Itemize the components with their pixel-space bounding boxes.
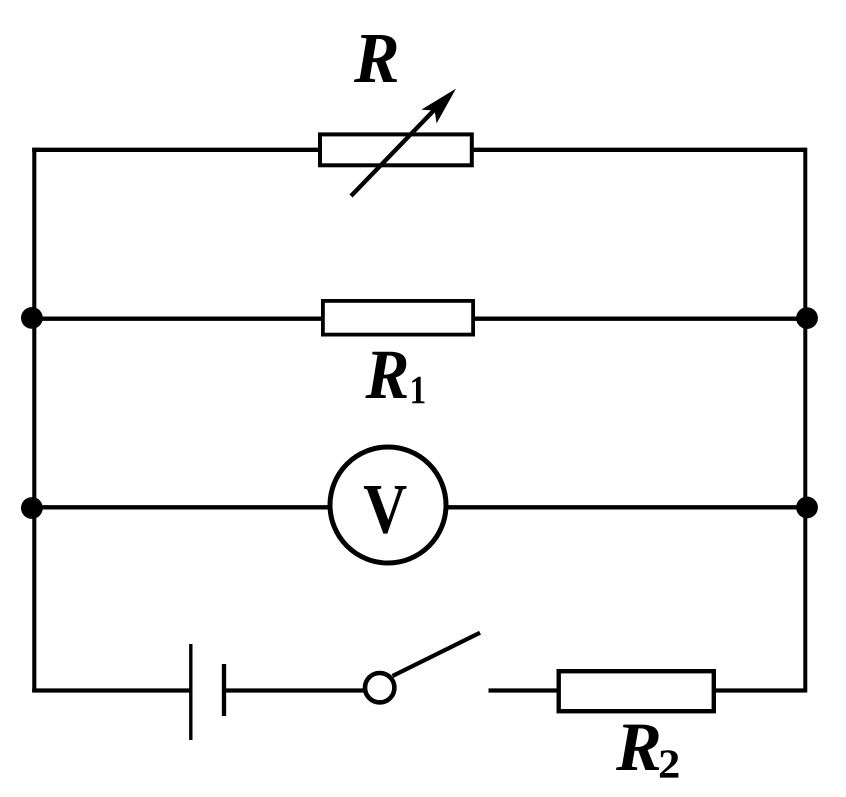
resistor R2 xyxy=(559,671,714,711)
wire top-left (to R) xyxy=(32,148,319,152)
wire R2 to right rail xyxy=(714,688,807,692)
node D (right, row3) xyxy=(796,497,818,519)
wire row3-left (to voltmeter) xyxy=(32,505,330,509)
wire top-right (from R) xyxy=(473,148,807,152)
resistor R1 xyxy=(323,301,473,335)
battery BT1 short plate xyxy=(222,664,226,716)
label R xyxy=(354,35,397,82)
node C (right, row2) xyxy=(796,307,818,329)
switch S1 xyxy=(365,633,480,703)
resistor R (variable) xyxy=(320,89,472,196)
label R1 xyxy=(365,352,424,404)
wire switch to R2 xyxy=(489,688,559,692)
wire bottom to battery xyxy=(32,688,191,692)
wire battery to switch xyxy=(224,688,364,692)
label V xyxy=(364,486,407,534)
wire left rail xyxy=(32,148,36,693)
node A (left, row2) xyxy=(21,307,43,329)
voltmeter U1 xyxy=(330,447,446,563)
wire row2-right (from R1) xyxy=(474,317,807,321)
wire row3-right (from voltmeter) xyxy=(446,505,807,509)
node B (left, row3) xyxy=(21,497,43,519)
battery BT1 long plate xyxy=(189,644,192,740)
wire row2-left (to R1) xyxy=(32,317,322,321)
wire right rail xyxy=(803,148,807,693)
label R2 xyxy=(616,725,678,778)
